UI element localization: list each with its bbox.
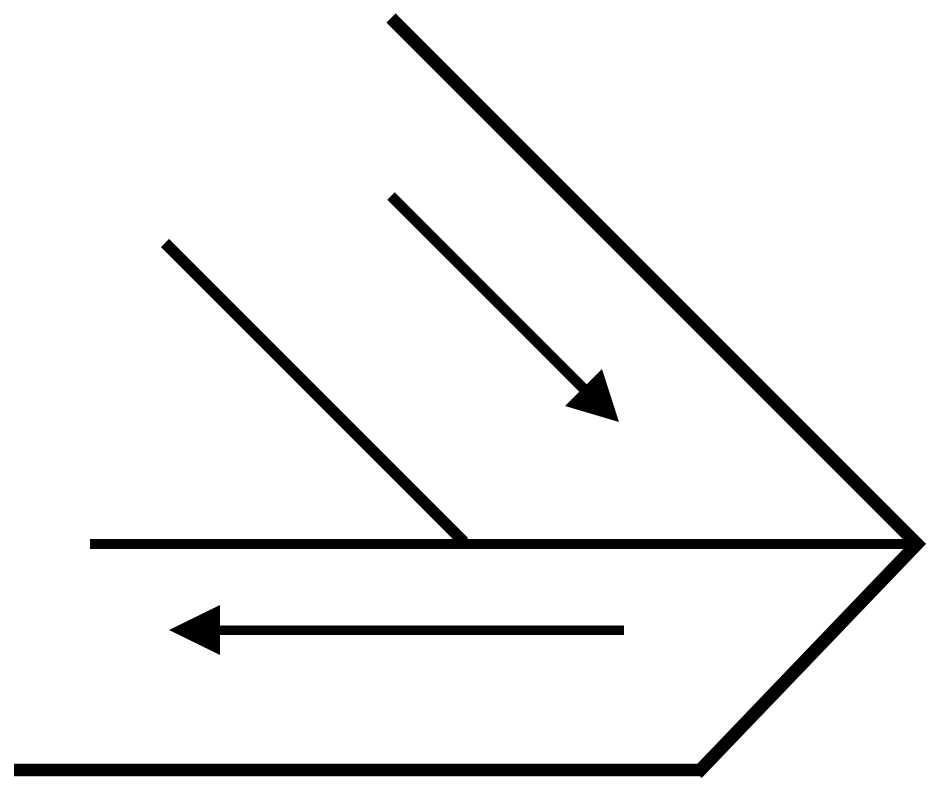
horizontal middle line (90, 539, 917, 549)
bottom horizontal line (14, 764, 702, 777)
short diagonal line (165, 243, 464, 542)
horizontal arrow shaft (214, 626, 624, 636)
horizontal arrowhead (169, 605, 220, 655)
diagonal arrowhead (565, 369, 619, 422)
wedge outline: upper long diagonal + lower diagonal meeting at right vertex (391, 18, 917, 774)
diagonal arrow shaft (391, 196, 588, 393)
